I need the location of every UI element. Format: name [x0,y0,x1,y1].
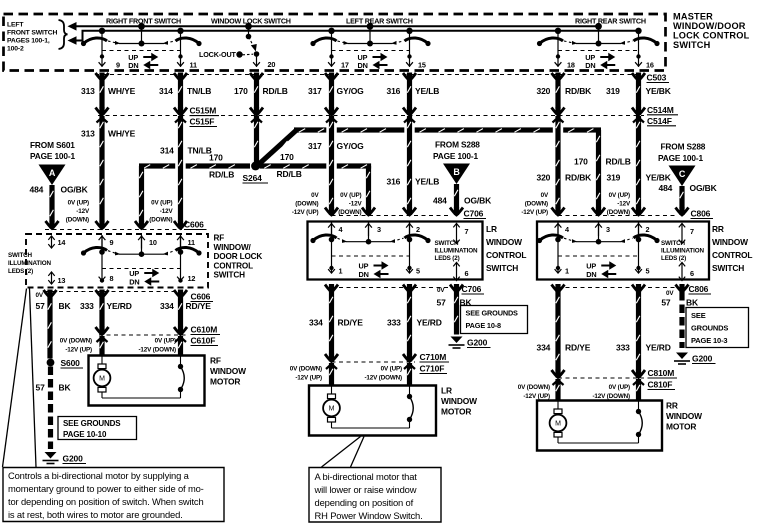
tiny 0V label (LR) [437,287,445,294]
left front switch reference text [7,21,58,52]
svg-text:DN: DN [585,61,595,70]
wire 333 YE/RD (RF) [96,298,109,343]
svg-text:11: 11 [190,60,198,69]
svg-text:170: 170 [574,157,588,167]
svg-text:C514F: C514F [647,116,672,126]
svg-text:-12V (UP): -12V (UP) [292,209,319,216]
svg-text:0V (UP): 0V (UP) [68,200,89,207]
RR window motor [537,401,702,451]
splice S264 [243,162,269,183]
svg-text:334: 334 [309,318,323,328]
wire 334 RD/YE (RR) [552,291,565,385]
wire 314 TN/LB (to RF switch) [174,116,187,229]
wire 170 RD/LB (into splice) [254,116,259,164]
svg-text:RD/LB: RD/LB [209,170,234,180]
svg-text:57: 57 [36,383,46,393]
C503 chevron on wire 2 [174,73,187,81]
svg-text:DN: DN [358,61,368,70]
wire 170 RD/LB horizontal (to RR) [294,127,601,132]
svg-text:2: 2 [416,225,420,234]
svg-text:M: M [555,421,561,428]
svg-text:BK: BK [59,301,72,311]
connector C606 line below RF box [44,291,187,293]
svg-text:0V (DOWN): 0V (DOWN) [290,366,322,373]
wire label 319 YE/BK (lower) [607,173,672,183]
tiny labels LR motor left [290,366,322,382]
svg-text:YE/LB: YE/LB [415,177,439,187]
svg-text:18: 18 [567,60,575,69]
svg-text:GY/OG: GY/OG [337,141,365,151]
svg-text:C515M: C515M [190,106,217,116]
svg-text:-12V: -12V [617,201,631,208]
svg-text:WINDOW: WINDOW [712,237,748,247]
svg-text:0V: 0V [36,292,44,299]
svg-text:WH/YE: WH/YE [108,129,136,139]
svg-text:RD/YE: RD/YE [565,343,591,353]
svg-text:PAGE 10-10: PAGE 10-10 [63,430,107,439]
connector C610M label [191,325,221,335]
svg-text:FRONT SWITCH: FRONT SWITCH [7,29,58,36]
svg-text:WH/YE: WH/YE [108,86,136,96]
svg-text:CONTROL: CONTROL [712,250,752,260]
see grounds box (RR) [686,308,749,348]
svg-text:PAGES 100-1,: PAGES 100-1, [7,37,50,44]
svg-text:WINDOW: WINDOW [666,411,702,421]
svg-text:RR: RR [666,401,678,411]
ground G200 (RR) [674,353,716,365]
wire 333 YE/RD (LR) [403,291,416,369]
window lock switch label [211,16,291,25]
svg-text:14: 14 [58,238,67,247]
svg-text:320: 320 [537,173,551,183]
svg-text:319: 319 [607,173,621,183]
svg-text:WINDOW/DOOR: WINDOW/DOOR [673,21,746,31]
svg-text:15: 15 [418,60,426,69]
tiny labels RF motor left [60,338,92,354]
svg-text:C810F: C810F [648,380,673,390]
connector C514F label [647,116,676,126]
svg-text:WINDOW: WINDOW [441,396,477,406]
connector C806 label (bottom) [689,284,712,294]
RR pin 3 arrow [595,223,610,236]
svg-text:C606: C606 [184,220,204,230]
wire 170 corner down to RR pin 3 [592,130,605,215]
C806 chevron pin6 [676,284,689,292]
wire label 170 RD/LB [234,86,288,96]
svg-text:YE/RD: YE/RD [107,301,132,311]
RF pin 13 LED [48,272,65,285]
svg-text:320: 320 [537,86,551,96]
svg-text:WINDOW: WINDOW [210,366,246,376]
svg-text:7: 7 [465,227,469,236]
C503 chevron on wire 7 [632,73,645,81]
svg-text:SWITCH: SWITCH [214,271,246,280]
wire 314 TN/LB (upper run) [174,81,187,123]
svg-text:PAGE 10-3: PAGE 10-3 [691,336,727,345]
svg-text:RD/BK: RD/BK [565,173,592,183]
ground G200 (LR) [449,337,491,349]
from S288 reference (C) [658,142,706,164]
svg-text:G200: G200 [63,454,84,464]
wire labels 57 BK / 333 YE/RD / 334 RD/YE [36,301,212,311]
callout box: controls a bi-directional motor [3,468,224,522]
svg-text:0V (UP): 0V (UP) [609,192,630,199]
svg-text:TN/LB: TN/LB [187,86,211,96]
master window/door lock control switch box (dashed) [4,14,666,71]
RF window/door lock control switch box (dashed) [26,234,208,288]
connector C806 label (top) [691,209,714,219]
svg-text:319: 319 [606,86,620,96]
arrow to left front switch (top feed) [68,22,77,31]
callout leader lines (left) [3,289,37,468]
svg-text:(DOWN): (DOWN) [149,217,172,224]
svg-text:LEFT REAR SWITCH: LEFT REAR SWITCH [346,16,413,25]
right front switch mechanism [81,23,202,70]
svg-text:RD/YE: RD/YE [186,301,212,311]
wire 317 GY/OG (upper run) [325,81,338,123]
svg-text:9: 9 [110,238,114,247]
svg-text:RH Power Window Switch.: RH Power Window Switch. [315,510,423,521]
svg-text:0V: 0V [541,192,549,199]
RR pin 2 arrow [635,223,649,236]
svg-text:57: 57 [36,301,46,311]
wire label 319 YE/BK [606,86,672,96]
svg-text:RD/BK: RD/BK [565,86,592,96]
svg-text:LEDS (2): LEDS (2) [8,268,33,275]
svg-text:PAGE 100-1: PAGE 100-1 [658,153,703,163]
ground G200 (left) [43,452,87,464]
svg-text:6: 6 [690,269,694,278]
wire 316 YE/LB (to LR switch) [403,116,416,215]
connector C515M label [190,106,220,116]
svg-text:S600: S600 [61,358,81,368]
wire 319 YE/BK (upper run) [632,81,645,123]
svg-text:-12V (DOWN): -12V (DOWN) [592,393,630,400]
svg-text:(DOWN): (DOWN) [525,201,548,208]
RF pin 9 arrow [99,236,114,249]
connector C514M label [647,105,678,115]
right rear switch label [575,16,646,25]
wire 484 OG/BK (from C) [676,186,689,215]
svg-text:C710F: C710F [420,364,445,374]
svg-text:-12V (DOWN): -12V (DOWN) [138,347,176,354]
tiny labels LR pin3 [338,192,362,216]
svg-text:SWITCH: SWITCH [712,263,744,273]
svg-text:-12V (UP): -12V (UP) [521,209,548,216]
RR switch label [712,224,752,273]
LR window control switch box [308,222,483,280]
tiny 0V label (RR) [666,290,674,297]
svg-text:CONTROL: CONTROL [486,250,526,260]
svg-text:0V: 0V [666,290,674,297]
svg-text:DN: DN [128,61,138,70]
RF pin 10 arrow [138,236,157,249]
LR pin 4 arrow [328,223,343,236]
svg-text:3: 3 [606,225,610,234]
connector C606 label (top) [184,220,207,230]
svg-text:C: C [679,169,686,179]
svg-text:0V (UP): 0V (UP) [340,192,361,199]
svg-text:316: 316 [387,86,401,96]
svg-text:DN: DN [586,270,596,279]
svg-text:GROUNDS: GROUNDS [691,324,728,333]
svg-text:RD/YE: RD/YE [338,318,364,328]
wire labels 334/333 (LR) [309,318,442,328]
svg-text:LOCK CONTROL: LOCK CONTROL [673,31,750,41]
C706 chevron pin5 [403,284,416,292]
connector C806 line below RR box [558,287,676,289]
C606 chevron wire 334 [174,290,187,298]
svg-text:depending on position of: depending on position of [315,497,414,508]
wire 170 RD/LB (upper run) [250,81,263,123]
C606 chevron wire 57 [44,290,57,298]
svg-text:YE/RD: YE/RD [646,343,671,353]
wire 333 into RR motor [636,379,641,401]
svg-text:170: 170 [209,153,223,163]
svg-text:1: 1 [339,267,343,276]
tiny labels RR pin4 [521,192,549,216]
wire 320 RD/BK (to RR switch) [552,116,565,215]
RR window control switch box [537,222,709,280]
svg-text:314: 314 [160,146,174,156]
svg-text:SWITCH: SWITCH [673,40,711,50]
wire 170 diagonal from S264 [259,131,297,165]
svg-text:DN: DN [359,270,369,279]
RR pin 6 LED [679,262,694,280]
svg-text:OG/BK: OG/BK [464,196,492,206]
C503 chevron on wire 5 [403,73,416,81]
left rear switch mechanism [310,23,430,70]
connector C710F label [420,364,448,374]
callout box: a bi-directional motor [309,468,441,523]
svg-text:GY/OG: GY/OG [337,86,365,96]
svg-text:484: 484 [30,185,44,195]
svg-text:tor depending on position of s: tor depending on position of switch. Whe… [8,496,204,507]
wire 334 RD/YE (RF) [174,298,187,343]
svg-text:484: 484 [433,196,447,206]
wire 484 OG/BK (from B) [450,184,463,215]
wire 333 YE/RD (RR) [632,291,645,385]
connector C606 line above RF box [45,229,182,231]
svg-text:M: M [329,406,335,413]
connector C606 label (bottom) [191,292,214,302]
svg-text:0V: 0V [311,192,319,199]
svg-text:LEDS (2): LEDS (2) [661,255,686,262]
C503 chevron on wire 4 [325,73,338,81]
wire label 316 YE/LB [387,86,440,96]
svg-text:(DOWN): (DOWN) [295,201,318,208]
svg-text:5: 5 [416,267,420,276]
wire label 314 TN/LB [160,146,212,156]
C806 chevron pin5 [632,284,645,292]
svg-text:7: 7 [690,227,694,236]
svg-text:ILLUMINATION: ILLUMINATION [435,248,478,255]
svg-text:3: 3 [377,225,381,234]
connector C706 label (top) [464,209,487,219]
wire label 484 OG/BK (C) [659,183,718,193]
RF switch mechanism [81,235,202,287]
svg-text:(DOWN): (DOWN) [66,217,89,224]
wire label 313 WH/YE [81,129,136,139]
svg-text:MOTOR: MOTOR [441,407,471,417]
svg-text:RF: RF [210,356,221,366]
left rear switch label [346,16,413,25]
svg-text:17: 17 [341,60,349,69]
svg-text:M: M [99,376,105,383]
see grounds box (left) [58,417,137,440]
svg-text:Controls a bi-directional moto: Controls a bi-directional motor by suppl… [8,470,190,481]
tiny labels pin9 wire [66,200,90,224]
svg-text:YE/RD: YE/RD [417,318,442,328]
svg-text:317: 317 [308,141,322,151]
svg-text:RIGHT REAR SWITCH: RIGHT REAR SWITCH [575,16,646,25]
svg-text:SWITCH: SWITCH [435,240,460,247]
wire label 317 GY/OG [308,86,364,96]
wire label 170 RD/LB (right of splice) [277,152,302,179]
svg-text:FROM S601: FROM S601 [30,140,75,150]
wire 57 BK (LR) [437,291,473,335]
svg-text:SEE GROUNDS: SEE GROUNDS [63,419,121,428]
RR switch illumination text [661,240,704,262]
master switch label [673,12,750,51]
svg-text:C706: C706 [464,209,484,219]
wire labels 334/333 (RR) [537,343,671,353]
LR pin 6 LED [453,262,468,280]
splice wire 170 horizontal run [139,163,250,168]
svg-text:13: 13 [58,276,66,285]
wire label 170 RD/LB (RR) [574,157,631,167]
see grounds box (LR) [461,306,528,334]
C706 chevron pin1 [325,284,338,292]
svg-text:A: A [49,168,56,178]
svg-text:ILLUMINATION: ILLUMINATION [8,260,51,267]
C806 chevron pin1 [552,284,565,292]
tiny labels RR motor left [518,384,550,400]
svg-text:0V (UP): 0V (UP) [151,200,172,207]
wire label 484 OG/BK (B) [433,196,492,206]
svg-text:YE/BK: YE/BK [646,86,672,96]
svg-text:-12V (UP): -12V (UP) [295,375,322,382]
wire 57 BK (lower, dashed) [48,367,53,450]
svg-text:333: 333 [387,318,401,328]
svg-text:SWITCH: SWITCH [661,240,686,247]
svg-text:170: 170 [234,86,248,96]
svg-text:A bi-directional motor that: A bi-directional motor that [315,471,418,482]
arrow to left front switch (lower feed) [68,36,77,45]
svg-text:CONTROL: CONTROL [214,261,254,270]
connector C503 line (dashed) [95,74,644,76]
svg-text:C610M: C610M [191,325,218,335]
svg-text:LEFT: LEFT [7,21,24,28]
connector C806 line above RR box [558,215,676,217]
RF switch illumination text [8,252,51,275]
from S288 reference (B) [433,140,480,162]
svg-text:RD/LB: RD/LB [606,157,631,167]
svg-text:0V (UP): 0V (UP) [155,338,176,345]
tiny labels RR pin2 [607,192,631,216]
svg-text:8: 8 [110,274,114,283]
wire bus line 2 [76,31,638,41]
svg-text:MOTOR: MOTOR [210,377,240,387]
svg-text:12: 12 [188,274,196,283]
svg-text:6: 6 [465,269,469,278]
svg-text:170: 170 [280,152,294,162]
svg-text:BK: BK [686,298,699,308]
svg-text:57: 57 [437,298,447,308]
tiny 0V label [36,292,44,299]
wire 316 YE/LB (upper run) [403,81,416,123]
from S601 reference [30,140,75,161]
wire 57 BK (upper) [47,298,52,359]
svg-text:334: 334 [160,301,174,311]
svg-text:OG/BK: OG/BK [61,185,89,195]
svg-text:SWITCH: SWITCH [8,252,33,259]
connector C610 line [99,334,188,336]
svg-text:momentary ground to power to e: momentary ground to power to either side… [8,483,204,494]
svg-text:C710M: C710M [420,352,447,362]
svg-text:FROM S288: FROM S288 [435,140,480,150]
svg-text:333: 333 [80,301,94,311]
svg-text:LR: LR [441,386,452,396]
wire 57 BK (RR) [661,292,699,348]
LR switch illumination text [435,240,478,262]
wire 319 YE/BK (to RR switch) [632,116,645,215]
svg-text:C515F: C515F [190,117,215,127]
svg-text:DOOR LOCK: DOOR LOCK [214,252,263,261]
svg-text:LR: LR [486,224,497,234]
right front switch label [106,16,181,25]
connector C710 line [332,361,416,363]
svg-text:333: 333 [616,343,630,353]
C503 chevron on wire 3 [250,73,263,81]
svg-text:RD/LB: RD/LB [263,86,288,96]
svg-text:0V: 0V [437,287,445,294]
svg-text:C606: C606 [191,292,211,302]
svg-text:ILLUMINATION: ILLUMINATION [661,248,704,255]
svg-text:PAGE 10-8: PAGE 10-8 [466,321,502,330]
svg-text:WINDOW: WINDOW [486,237,522,247]
triangle connector B [443,164,470,185]
splice S600 [47,358,83,368]
svg-text:OG/BK: OG/BK [690,183,718,193]
svg-text:-12V (UP): -12V (UP) [65,347,92,354]
LR window motor [309,386,477,436]
svg-text:9: 9 [116,60,120,69]
svg-text:313: 313 [81,129,95,139]
svg-text:57: 57 [661,298,671,308]
C503 chevron on wire 1 [96,73,109,81]
wire 313 WH/YE (to RF switch) [96,116,109,229]
wire 333 into motor box [99,336,104,356]
RF window motor [89,356,247,406]
svg-text:-12V: -12V [160,208,174,215]
svg-text:C806: C806 [689,284,709,294]
wire 170 RD/LB (S264 to LR) [260,163,372,168]
svg-text:10: 10 [149,238,157,247]
svg-text:0V (DOWN): 0V (DOWN) [518,384,550,391]
svg-text:RD/LB: RD/LB [277,169,302,179]
LR pin 3 arrow [365,223,381,236]
wire 334 into LR motor [329,363,334,386]
svg-text:316: 316 [387,177,401,187]
svg-text:S264: S264 [243,173,263,183]
tiny labels RF motor right [138,338,176,354]
svg-text:LOCK-OUT: LOCK-OUT [199,50,236,59]
svg-text:MOTOR: MOTOR [666,422,696,432]
svg-text:C514M: C514M [647,105,674,115]
svg-text:LEDS (2): LEDS (2) [435,255,460,262]
wire 334 into RR motor [555,379,560,401]
